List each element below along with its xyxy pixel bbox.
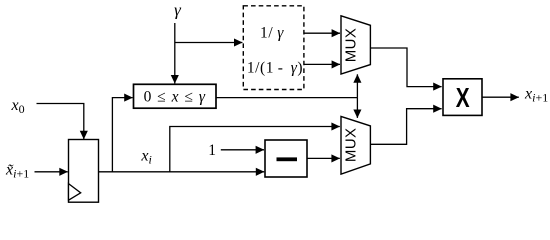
register R1 (state register)	[69, 140, 99, 203]
svg-text:x0: x0	[11, 97, 25, 116]
wire register output xi main run	[98, 171, 264, 173]
svg-text:1/(1 - γ): 1/(1 - γ)	[247, 60, 303, 77]
wire constant 1 into subtractor	[221, 149, 264, 151]
wire x0 into register	[37, 104, 84, 140]
svg-text:MUX: MUX	[343, 128, 360, 163]
wire 1/gamma to MUX U1 input 0	[304, 32, 340, 34]
wire MUX U1 output to multiplier	[370, 48, 441, 87]
svg-text:0 ≤ x ≤ γ: 0 ≤ x ≤ γ	[144, 88, 206, 105]
svg-text:1/ γ: 1/ γ	[260, 25, 284, 42]
wire MUX U2 output to multiplier	[370, 109, 441, 145]
comparator box 0<=x<=gamma	[134, 84, 217, 108]
svg-text:xi: xi	[140, 148, 151, 167]
svg-text:MUX: MUX	[343, 28, 360, 63]
multiplier U4 (X box)	[443, 79, 482, 116]
node xi branch to comparator	[112, 98, 132, 172]
MUX U1 (top multiplexer)	[341, 16, 370, 74]
svg-text:1: 1	[208, 142, 216, 159]
svg-text:X: X	[456, 83, 470, 114]
wire 1/(1-gamma) to MUX U1 input 1	[304, 63, 340, 65]
wire comparator output to MUX selects	[216, 97, 357, 99]
wire subtractor output to MUX U2 input 1	[307, 157, 340, 159]
svg-text:x̃i+1: x̃i+1	[5, 162, 29, 181]
wire x~i+1 into register	[35, 171, 68, 173]
svg-text:xi+1: xi+1	[524, 86, 548, 105]
wire select down into MUX U2	[356, 98, 358, 118]
wire multiplier output xi+1	[482, 96, 519, 98]
dashed constants box	[243, 6, 304, 90]
node xi branch to MUX U2 input 0	[170, 127, 340, 172]
subtractor U3	[265, 140, 307, 177]
wire select up into MUX U1	[356, 74, 358, 97]
svg-text:γ: γ	[174, 1, 182, 20]
MUX U2 (bottom multiplexer)	[341, 116, 370, 174]
wire gamma branch to dashed box	[175, 42, 243, 44]
wire gamma vertical into comparator	[174, 23, 176, 83]
